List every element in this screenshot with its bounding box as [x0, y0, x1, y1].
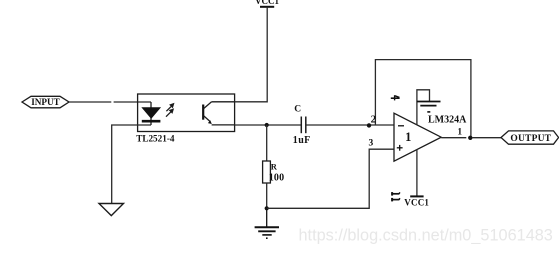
feedback wire output to pin 2: [375, 60, 471, 138]
svg-text:3: 3: [369, 139, 374, 149]
svg-text:TL2521-4: TL2521-4: [136, 134, 175, 144]
svg-text:VCC1: VCC1: [404, 197, 429, 207]
svg-text:100: 100: [269, 173, 285, 184]
svg-text:1uF: 1uF: [293, 135, 311, 146]
svg-text:INPUT: INPUT: [31, 97, 60, 107]
resistor R body: [263, 161, 271, 183]
wire optocoupler emitter to node A: [235, 124, 302, 126]
wire VCC1 to optocoupler collector: [235, 7, 268, 102]
wire LED cathode to ground: [112, 125, 151, 204]
port INPUT: [22, 96, 69, 108]
wire INPUT to optocoupler anode: [69, 101, 151, 103]
capacitor C plates: [301, 117, 306, 134]
ground (power ground triangle): [99, 204, 124, 216]
wire node C to op-amp pin 3: [267, 149, 394, 208]
svg-text:1: 1: [457, 127, 462, 137]
ground (pin 4 signal ground): [417, 102, 441, 112]
port OUTPUT: [501, 131, 559, 144]
svg-text:R: R: [271, 161, 278, 171]
node C junction (R / ground / pin 3 wire): [265, 206, 269, 210]
wire op-amp output: [441, 137, 501, 139]
power VCC1 (bottom): [404, 196, 429, 207]
svg-text:C: C: [294, 105, 301, 115]
wire resistor to ground node C: [266, 183, 268, 208]
ground (signal ground below R): [255, 208, 279, 238]
optocoupler U1 TL2521-4 body: [138, 94, 235, 132]
LED D (optocoupler emitter diode): [142, 102, 161, 125]
wire pin 4 to ground: [417, 90, 430, 125]
svg-text:1: 1: [405, 130, 411, 144]
phototransistor Q (optocoupler output): [203, 102, 234, 125]
pin 11 number: [392, 192, 400, 201]
wire C to op-amp pin 2: [306, 124, 394, 126]
pin 4 number: [391, 95, 400, 100]
wire node A to resistor: [266, 125, 268, 161]
svg-text:LM324A: LM324A: [428, 115, 467, 126]
svg-text:VCC1: VCC1: [255, 0, 279, 6]
svg-text:https://blog.csdn.net/m0_51061: https://blog.csdn.net/m0_51061483: [299, 227, 553, 245]
node B junction (pin 2 / feedback): [367, 123, 371, 127]
light arrows: [166, 104, 174, 117]
wire pin 11 to VCC1: [416, 149, 418, 196]
node A junction (emitter / C / R): [265, 123, 269, 127]
op-amp U2 LM324A triangle: [394, 113, 441, 161]
power VCC1 (top): [255, 0, 279, 7]
node D junction (output / feedback): [468, 136, 472, 140]
svg-text:OUTPUT: OUTPUT: [510, 134, 551, 144]
svg-text:2: 2: [371, 113, 377, 125]
